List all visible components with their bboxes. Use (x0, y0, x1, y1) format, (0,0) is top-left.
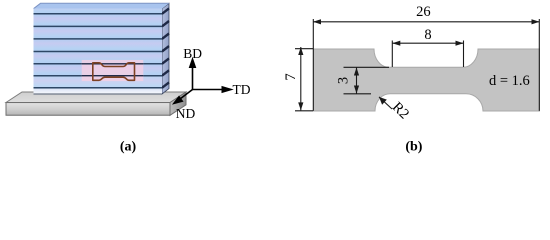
svg-text:BD: BD (183, 46, 202, 61)
svg-text:d = 1.6: d = 1.6 (489, 73, 530, 89)
block bottom edge (34, 93, 163, 95)
svg-text:7: 7 (283, 73, 299, 80)
svg-text:(a): (a) (120, 140, 137, 155)
coordinate axes (174, 59, 231, 103)
svg-text:ND: ND (176, 106, 196, 121)
svg-text:R2: R2 (389, 99, 412, 122)
layer lines visible through pink (82, 64, 144, 76)
block right side face (162, 3, 169, 94)
BD axis (192, 66, 194, 90)
svg-text:26: 26 (416, 4, 431, 20)
8 dimension (391, 41, 393, 68)
specimen shape (314, 49, 540, 111)
R2 leader (379, 97, 392, 109)
base plate top face (6, 92, 186, 103)
arrowheads 8 (392, 41, 400, 46)
arrowhead R2 (379, 97, 387, 105)
arrowheads 7 (298, 47, 303, 55)
svg-text:TD: TD (233, 82, 251, 97)
26 dimension (312, 19, 314, 111)
svg-text:3: 3 (336, 77, 352, 84)
lighter lower band (34, 76, 163, 89)
svg-text:8: 8 (424, 27, 431, 43)
block layer lines (34, 14, 163, 88)
specimen outline (dogbone) on block (93, 63, 135, 81)
block front face (34, 9, 163, 95)
base plate right side face (170, 92, 186, 115)
bottom fade band (34, 89, 163, 94)
7 dimension (295, 48, 313, 50)
TD axis (193, 89, 225, 91)
arrowheads 3 (354, 68, 359, 76)
base plate front face (6, 103, 170, 116)
arrowheads 26 (313, 19, 321, 24)
pink highlight rectangle (82, 60, 144, 81)
block top face (34, 3, 170, 8)
3 dimension (344, 66, 390, 68)
svg-text:(b): (b) (405, 140, 422, 155)
ND axis (179, 90, 193, 100)
block side layer lines (162, 8, 169, 87)
